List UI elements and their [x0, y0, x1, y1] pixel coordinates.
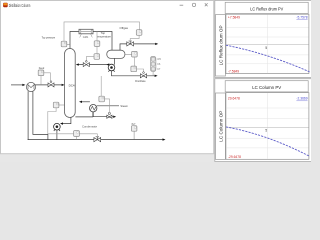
svg-text:-5.7578: -5.7578 [296, 16, 307, 20]
steam trap valve [107, 115, 112, 118]
flowsheet window frame [1, 1, 214, 154]
svg-text:LC Column PV: LC Column PV [252, 85, 281, 90]
column DC4 [65, 49, 76, 118]
signal: condensate box to bottoms valve [77, 134, 98, 140]
svg-text:Feed: Feed [39, 66, 45, 70]
chart title box bottom [225, 81, 308, 92]
svg-text:-2.3669: -2.3669 [296, 97, 307, 101]
bottoms pump [54, 123, 61, 130]
analyzer stack [150, 56, 156, 71]
controller FC feed [38, 70, 44, 76]
reflux drum [107, 50, 125, 58]
signal: top pressure PC to offgas PC box [64, 22, 140, 41]
y-axis label box bottom [216, 93, 226, 159]
signal: LC to output box [133, 57, 135, 66]
wire: drum to pump [113, 58, 115, 64]
feed arrow into column [62, 84, 65, 86]
minimize button [180, 4, 184, 6]
feed control valve [48, 83, 54, 87]
wire: condenser to reflux drum [93, 32, 112, 51]
controller LC column [53, 102, 59, 108]
gridlines top [226, 15, 308, 74]
signal: LC column to condensate box [48, 108, 74, 134]
svg-text:temperature: temperature [97, 34, 111, 38]
bottoms arrow [163, 138, 166, 140]
signal: drum tap to LC [125, 53, 132, 55]
svg-text:+7.5849: +7.5849 [228, 16, 240, 20]
offgas control valve [127, 42, 134, 46]
svg-text:29.6478: 29.6478 [228, 97, 240, 101]
controller TC reboiler [99, 96, 105, 102]
wire: steam inlet [97, 105, 119, 107]
bottoms control valve [94, 138, 101, 142]
reboiler circle [90, 105, 97, 112]
signal: LC output to distillate valve [137, 69, 144, 72]
reflux pump [108, 64, 115, 71]
trend window LC Column [215, 79, 312, 162]
signal: BuT tap to bottoms line [133, 131, 135, 139]
wire: column bottoms to pump [61, 117, 71, 123]
reflux control valve [83, 63, 89, 67]
svg-text:Steam: Steam [120, 104, 128, 108]
controller BuT box [131, 126, 137, 132]
feed preheater exchanger [26, 82, 35, 91]
condenser GM1 [79, 29, 93, 34]
wire: reflux line to column [78, 64, 109, 66]
svg-text:Distillation Column: Distillation Column [9, 3, 31, 8]
wire: feed inlet [11, 84, 23, 86]
distillate arrow [155, 75, 158, 77]
signal: TC output to reflux valve [86, 57, 94, 62]
reflux mid arrow [106, 63, 109, 65]
signal: offgas PC box to offgas valve [130, 35, 139, 41]
trend line bottom [226, 127, 310, 156]
svg-text:5: 5 [265, 128, 267, 132]
gridlines bottom [226, 93, 308, 159]
signal: FC to feed valve [41, 73, 50, 85]
controller PC top pressure [61, 41, 67, 47]
svg-text:Condensate: Condensate [82, 125, 98, 129]
signal: reboiler TC tap [100, 76, 102, 96]
svg-text:Offgas: Offgas [120, 26, 129, 30]
trend window LC Reflux drum [215, 0, 312, 77]
app icon [3, 3, 8, 7]
y-axis label box top [216, 15, 226, 76]
svg-text:DC4: DC4 [69, 84, 75, 88]
wire: reboiler return to column [81, 101, 90, 103]
svg-text:Distillate: Distillate [135, 79, 146, 83]
offgas arrow [155, 43, 158, 45]
controller offgas PC output box [136, 30, 142, 36]
signal: PC tap to riser [67, 44, 70, 46]
close button [205, 3, 208, 6]
wire: pump discharge to bottoms line [56, 130, 58, 140]
distillate control valve [140, 74, 146, 78]
wire: column bottoms to reboiler [75, 112, 93, 117]
maximize button [192, 3, 195, 6]
wire: preheater hot side legs [28, 91, 48, 139]
svg-text:5: 5 [265, 46, 267, 50]
svg-text:LC Column OP: LC Column OP [218, 110, 223, 141]
plot frame top [226, 14, 309, 73]
plot frame bottom [226, 93, 309, 160]
controller LC output box [131, 66, 137, 72]
controller condensate box [74, 131, 80, 137]
reflux arrow into column [76, 63, 79, 65]
svg-text:GM1: GM1 [83, 35, 89, 39]
wire: bottoms product line [28, 139, 163, 141]
wire: overhead riser to condenser [70, 32, 79, 49]
signal: column tap to LC column [59, 104, 65, 106]
signal: reboiler TC to steam valve [105, 99, 110, 112]
signal: TC to output box [96, 46, 98, 53]
svg-text:LC Reflux drum PV: LC Reflux drum PV [250, 7, 283, 12]
svg-text:-7.5849: -7.5849 [228, 69, 239, 73]
controller TC output box [94, 54, 100, 60]
svg-text:Top pressure: Top pressure [42, 36, 56, 40]
wire: drum vapour to offgas line [120, 44, 155, 50]
controller TC top temperature [94, 41, 100, 47]
trend line top [226, 45, 310, 72]
signal: stack tap to distillate line [152, 72, 154, 76]
feed arrow into preheater [22, 84, 25, 86]
bottoms pump inlet arrow [60, 122, 63, 124]
svg-text:-29.6478: -29.6478 [228, 155, 241, 159]
wire: preheater to feed valve [35, 84, 62, 86]
chart title box top [225, 2, 308, 13]
wire: pump to distillate line [112, 71, 155, 76]
controller LC reflux drum [132, 51, 138, 57]
svg-text:LC Reflux drum OP: LC Reflux drum OP [218, 25, 223, 65]
wire: reboiler condensate out [93, 112, 113, 117]
signal: TC tap to condenser outlet [96, 32, 98, 41]
